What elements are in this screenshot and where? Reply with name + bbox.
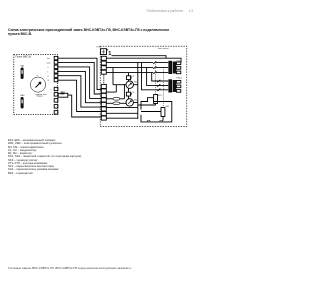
mech link (dashed, contacts to SK1)	[155, 62, 157, 94]
terminal block XT1 (panel, upper group)	[47, 56, 58, 82]
wire (strip row to motor bus 2)	[106, 112, 138, 114]
svg-text:вкл: вкл	[47, 58, 50, 60]
svg-text:I: I	[48, 71, 49, 73]
svg-text:0: 0	[48, 67, 49, 69]
wire (panel t1 to unit strip)	[58, 58, 101, 89]
wire (feed to heater bus)	[107, 56, 182, 63]
junction dot	[146, 67, 147, 68]
wire (panel t4 to unit strip)	[58, 71, 101, 102]
svg-text:С2: С2	[132, 92, 135, 94]
wire (strip row to motor bus 1)	[106, 107, 138, 109]
svg-text:SA1: SA1	[20, 65, 25, 68]
control panel box Пульт ВКС-В	[14, 55, 58, 115]
sensor notch t1 on casing	[147, 120, 150, 122]
wire (drop to EK4 row)	[152, 73, 169, 81]
fan motor M1	[126, 81, 138, 88]
mech link (dashed, contacts to SK2)	[162, 67, 164, 107]
svg-text:Пульт ВКС-В: Пульт ВКС-В	[16, 55, 32, 59]
svg-text:III: III	[48, 80, 50, 82]
ground terminal PE	[101, 49, 107, 55]
wire (panel t2 to unit strip)	[58, 62, 101, 94]
contact KM1.1	[153, 61, 156, 63]
wire (M1 left lead)	[113, 84, 126, 86]
thermostat SK2	[141, 106, 170, 121]
contact KM1.2	[153, 66, 156, 68]
heater elements EK4-EK6	[168, 78, 181, 93]
wire (drop to EK6 row)	[142, 63, 169, 90]
terminal block XT2 (panel, lower group)	[51, 87, 58, 114]
svg-text:II: II	[48, 76, 49, 78]
svg-text:ЕК4-6: ЕК4-6	[177, 78, 182, 80]
wire (panel t6 to unit strip)	[58, 80, 101, 111]
switch SA1	[20, 65, 25, 79]
node L (mains input 1)	[107, 50, 112, 57]
wire (panel t5 to unit strip)	[58, 76, 101, 107]
wire (M1 to motor bus)	[133, 84, 137, 86]
switch SA2	[20, 94, 25, 108]
heater block casing	[141, 98, 172, 122]
contact KM2.2	[157, 84, 160, 86]
svg-text:блок электр.: блок электр.	[158, 48, 169, 50]
thermostat SK1	[141, 95, 163, 106]
wire (M2 to motor bus)	[133, 101, 137, 103]
wire (row to EK2 with KM1 contact)	[106, 67, 168, 69]
svg-text:воздуха: воздуха	[37, 96, 43, 98]
contact KM1.3	[153, 71, 156, 73]
svg-text:SK2: SK2	[165, 106, 170, 108]
wire (SK3 to unit strip)	[58, 95, 101, 117]
heater elements EK1-EK3	[168, 60, 181, 74]
wire (row to EK1 with KM1 contact)	[106, 62, 168, 64]
capacitor C2	[126, 88, 135, 98]
junction dot	[137, 62, 138, 63]
motor bus vertical	[138, 63, 141, 119]
varistor R2	[106, 102, 126, 105]
heater unit enclosure (dashed)	[100, 46, 187, 126]
junction dot	[141, 62, 142, 63]
svg-text:SA2: SA2	[20, 94, 25, 97]
svg-text:SK1: SK1	[158, 95, 163, 97]
wire (neutral drop A)	[112, 68, 114, 85]
svg-text:выкл: выкл	[47, 62, 51, 64]
capacitor C1	[126, 73, 135, 81]
svg-text:1: 1	[108, 51, 111, 57]
wire (neutral drop B)	[107, 85, 117, 92]
contact KM2.3	[157, 89, 160, 91]
thermostat SK3 on panel output	[58, 91, 68, 97]
svg-text:С1: С1	[132, 75, 135, 77]
terminal block XT5 (unit, lower group)	[101, 84, 106, 120]
wire (row to EK3 with KM1 contact)	[106, 72, 168, 74]
rotary knob BK3 (thermostat dial)	[30, 75, 47, 98]
fan motor M2	[126, 99, 138, 106]
wire (panel t3 to unit strip)	[58, 67, 101, 99]
junction dot	[124, 84, 125, 85]
svg-text:с: с	[51, 89, 52, 91]
terminal block XT3 (unit, upper group)	[101, 56, 106, 84]
wire (drop to EK5 row)	[147, 68, 169, 86]
varistor R1	[106, 85, 124, 101]
contact KM2.1	[157, 80, 160, 82]
sensor notch t2 on casing	[160, 120, 163, 122]
wire (strip row to motor bus 3)	[106, 117, 138, 119]
